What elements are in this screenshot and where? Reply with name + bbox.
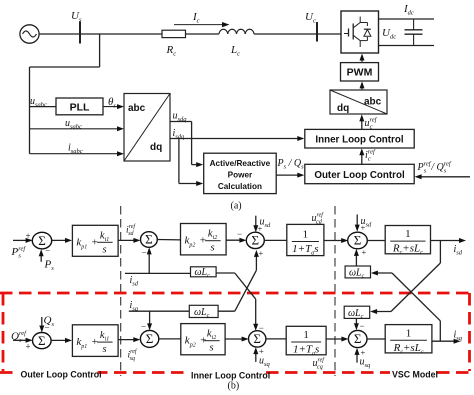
- svg-text:Σ: Σ: [354, 331, 362, 346]
- summing junction S5: [33, 333, 52, 349]
- inner loop control box: [305, 129, 414, 148]
- lag block Ta d-axis: [287, 224, 324, 255]
- dashed separator inner/vsc: [334, 206, 336, 376]
- svg-text:Us: Us: [71, 10, 82, 24]
- svg-text:+: +: [259, 248, 264, 258]
- svg-text:Σ: Σ: [38, 333, 46, 348]
- svg-text:−: −: [142, 248, 147, 258]
- plant block 1/(Rc+sLc) q-axis: [385, 325, 432, 353]
- IGBT Q1 with antiparallel diode: [348, 29, 350, 37]
- svg-text:PWM: PWM: [347, 67, 373, 79]
- svg-text:−: −: [360, 321, 365, 331]
- PLL box: [56, 98, 103, 115]
- svg-text:+: +: [361, 223, 366, 233]
- summing junction S3: [246, 232, 264, 248]
- wire tap vertical: [29, 67, 31, 154]
- arrow u_sd into S4 top: [356, 215, 358, 229]
- wL block controller d: [191, 267, 217, 277]
- wire S3 to Ta d: [264, 239, 287, 241]
- arrow Psref into S1: [13, 239, 29, 241]
- svg-text:s: s: [211, 243, 215, 254]
- svg-text:Uc: Uc: [305, 11, 316, 25]
- svg-text:Ps: Ps: [44, 259, 55, 273]
- wire S6 to PI2q: [159, 338, 181, 340]
- transform abc to dq box: [124, 94, 170, 162]
- transform dq to abc box: [330, 90, 387, 114]
- summing junction S4: [348, 232, 368, 249]
- svg-text:s: s: [103, 244, 107, 255]
- arrow output i_sd: [431, 240, 463, 242]
- PI block kp1 ki1 q-axis: [72, 325, 118, 357]
- arrow u_sq into S7 bottom: [255, 350, 257, 362]
- svg-text:Prefs/ Qrefs: Prefs/ Qrefs: [417, 161, 452, 175]
- svg-text:Udc: Udc: [382, 27, 396, 41]
- svg-text:usq: usq: [259, 356, 271, 369]
- arrow dq-abc to PWM: [361, 85, 363, 91]
- svg-text:abc: abc: [128, 103, 146, 114]
- summing junction S7: [249, 331, 266, 347]
- svg-text:Ps / Qs: Ps / Qs: [277, 158, 305, 171]
- summing junction S8: [348, 330, 367, 347]
- wire dc positive: [379, 18, 435, 20]
- wire i_sdq branch to power calc: [178, 139, 180, 184]
- svg-text:usabc: usabc: [30, 96, 47, 109]
- svg-text:irefc: irefc: [365, 149, 376, 163]
- svg-text:Σ: Σ: [354, 233, 362, 248]
- converter box: [341, 11, 379, 53]
- PI block kp2 ki2 d-axis: [181, 224, 227, 255]
- svg-text:θs: θs: [108, 96, 116, 110]
- wire i_sdq to inner loop: [170, 138, 300, 140]
- svg-text:Power: Power: [228, 171, 253, 180]
- resistor Rc: [162, 30, 186, 37]
- red frame left: [2, 293, 5, 371]
- wire S4 to RL d: [367, 240, 385, 242]
- arrow Ta-q to S8: [326, 338, 344, 340]
- svg-text:Inner Loop Control: Inner Loop Control: [191, 371, 270, 381]
- svg-text:PLL: PLL: [70, 102, 90, 114]
- svg-text:1: 1: [303, 229, 309, 241]
- svg-text:Rc: Rc: [166, 44, 177, 58]
- wire i_sd feedback line: [125, 272, 191, 274]
- svg-text:(b): (b): [228, 381, 240, 392]
- svg-text:Inner Loop Control: Inner Loop Control: [315, 134, 403, 145]
- svg-text:Outer Loop Control: Outer Loop Control: [314, 170, 405, 181]
- arrow u_c_ref inner to dq-abc: [361, 118, 363, 130]
- wire S7 to Ta q: [266, 338, 286, 340]
- svg-text:−: −: [237, 229, 242, 239]
- arrow PI1q to S6: [118, 339, 136, 341]
- arrow wLc-vsc-d to S4: [355, 252, 357, 266]
- arrow PI2q to S7: [225, 338, 245, 340]
- summing junction S2: [141, 232, 158, 248]
- svg-text:usq: usq: [360, 357, 372, 370]
- arrow u_sabc to abc-dq: [30, 128, 120, 130]
- svg-text:isabc: isabc: [68, 143, 83, 156]
- summing junction S1: [32, 232, 51, 249]
- capacitor Cdc: [413, 19, 415, 30]
- wire junction node: [99, 34, 101, 67]
- arrow PI1d to S2: [118, 239, 136, 241]
- arrow S5 to PI1q: [51, 339, 68, 341]
- svg-text:+: +: [259, 346, 264, 356]
- arrow i_sd feedback into S2: [148, 250, 150, 273]
- arrow output i_sq: [432, 340, 457, 342]
- PI block kp1 ki1 d-axis: [72, 225, 118, 256]
- svg-text:irefsq: irefsq: [128, 348, 138, 362]
- svg-text:kp2 +: kp2 +: [185, 335, 207, 349]
- plant block 1/(Rc+sLc) d-axis: [385, 226, 430, 254]
- svg-text:−: −: [141, 322, 146, 332]
- wire u_sdq: [170, 121, 192, 123]
- bus bar Us: [79, 22, 81, 44]
- arrow Ps feedback into S1: [40, 252, 42, 262]
- wL block controller q: [189, 305, 218, 317]
- wire resistor to inductor: [186, 33, 220, 35]
- svg-text:1+Tas: 1+Tas: [293, 344, 319, 358]
- wire i_sq branch up: [439, 321, 441, 341]
- svg-text:+: +: [26, 342, 31, 352]
- summing junction S6: [140, 330, 158, 347]
- svg-text:+: +: [362, 247, 367, 257]
- red frame top: [0, 292, 470, 295]
- svg-text:Σ: Σ: [252, 233, 260, 248]
- PWM box: [341, 63, 379, 81]
- svg-text:Σ: Σ: [146, 331, 154, 346]
- wL block vsc q: [344, 306, 370, 318]
- svg-text:Ic: Ic: [192, 11, 200, 25]
- wL block vsc d: [345, 266, 370, 278]
- svg-text:+: +: [258, 224, 263, 234]
- svg-text:(a): (a): [231, 201, 242, 212]
- svg-text:dq: dq: [337, 103, 349, 114]
- arrow PLL to abc-dq: [103, 106, 120, 108]
- arrow Qs into S5 top: [41, 317, 43, 329]
- arrow S1 to PI1d: [52, 239, 68, 241]
- section label inner loop control: [189, 370, 265, 382]
- svg-text:s: s: [210, 343, 214, 354]
- lag block Ta q-axis: [286, 326, 326, 355]
- svg-text:Prefs: Prefs: [11, 246, 27, 260]
- AC source generator: [20, 25, 39, 43]
- arrow wLc-vsc-q to S8: [355, 318, 357, 327]
- outer loop control box: [305, 164, 414, 183]
- wire wLc-d output to S7: [216, 272, 235, 274]
- arrow PQref into outer loop: [419, 176, 470, 178]
- section label outer loop control: [19, 369, 98, 381]
- wire inductor to Uc bus: [254, 33, 341, 35]
- wire i_sq feedback line: [129, 310, 190, 312]
- wire i_sd branch down: [439, 241, 441, 264]
- svg-text:isd: isd: [454, 244, 463, 257]
- svg-text:−: −: [45, 246, 50, 256]
- svg-text:1: 1: [406, 327, 412, 339]
- PI block kp2 ki2 q-axis: [181, 324, 225, 355]
- red frame bottom: [0, 371, 474, 374]
- dashed separator outer/inner: [120, 206, 122, 376]
- arrow Ta-d to S4: [324, 240, 344, 242]
- svg-text:irefsd: irefsd: [126, 223, 136, 237]
- svg-text:Calculation: Calculation: [218, 182, 262, 191]
- svg-text:kp2 +: kp2 +: [185, 235, 207, 249]
- bus bar Uc: [316, 22, 318, 42]
- wire dc negative: [379, 45, 435, 47]
- svg-text:urefc: urefc: [365, 117, 378, 131]
- svg-text:dq: dq: [150, 142, 162, 153]
- svg-text:Idc: Idc: [403, 3, 414, 17]
- svg-text:kp1 +: kp1 +: [76, 236, 98, 250]
- svg-text:Qs: Qs: [44, 315, 55, 329]
- svg-text:Active/Reactive: Active/Reactive: [210, 159, 271, 168]
- arrow i_ref outer to inner: [361, 152, 363, 165]
- arrow Ps Qs to outer loop: [276, 174, 300, 176]
- arrow u_sq into S8 bottom: [356, 351, 358, 363]
- svg-text:Lc: Lc: [230, 44, 240, 58]
- svg-text:VSC Model: VSC Model: [392, 370, 438, 380]
- arrow PI2d to S3: [226, 239, 242, 241]
- arrow PWM to converter: [361, 57, 363, 63]
- arrow i_sabc to abc-dq: [30, 153, 120, 155]
- wire i_sq cross to wLc-vsc-d: [392, 273, 440, 321]
- svg-text:Rc+sLc: Rc+sLc: [393, 342, 424, 356]
- wire source to Us bus: [39, 33, 162, 35]
- wire u_sabc to PLL: [30, 106, 57, 108]
- svg-text:urefcq: urefcq: [313, 357, 326, 371]
- svg-text:isq: isq: [454, 330, 463, 343]
- svg-text:1+Tas: 1+Tas: [292, 243, 318, 257]
- wire S8 to RL q: [367, 338, 385, 340]
- wire tap horizontal: [30, 66, 100, 68]
- inductor Lc: [219, 29, 228, 34]
- arrow u_sd into S3 top: [255, 216, 257, 230]
- wire wLc-q output to S3: [218, 310, 235, 312]
- arrow Qsref into S5: [13, 339, 29, 341]
- active reactive power calculation box: [204, 153, 277, 193]
- arrow i_sq into S6: [149, 311, 151, 327]
- svg-text:Outer Loop Control: Outer Loop Control: [21, 370, 102, 380]
- svg-text:isd: isd: [130, 275, 139, 288]
- svg-text:Σ: Σ: [253, 331, 261, 346]
- arrow Ic: [174, 24, 223, 26]
- red frame right: [468, 293, 471, 371]
- svg-text:usabc: usabc: [65, 118, 82, 131]
- svg-text:s: s: [103, 344, 107, 355]
- wire S2 to PI2d: [157, 239, 180, 241]
- svg-text:urefcd: urefcd: [312, 212, 325, 226]
- svg-text:1: 1: [405, 228, 411, 240]
- section label vsc model: [390, 369, 437, 381]
- svg-text:1: 1: [303, 329, 309, 341]
- svg-text:kp1 +: kp1 +: [76, 336, 98, 350]
- svg-text:abc: abc: [364, 97, 382, 108]
- svg-text:Rc+sLc: Rc+sLc: [392, 243, 423, 257]
- svg-text:Σ: Σ: [145, 232, 153, 247]
